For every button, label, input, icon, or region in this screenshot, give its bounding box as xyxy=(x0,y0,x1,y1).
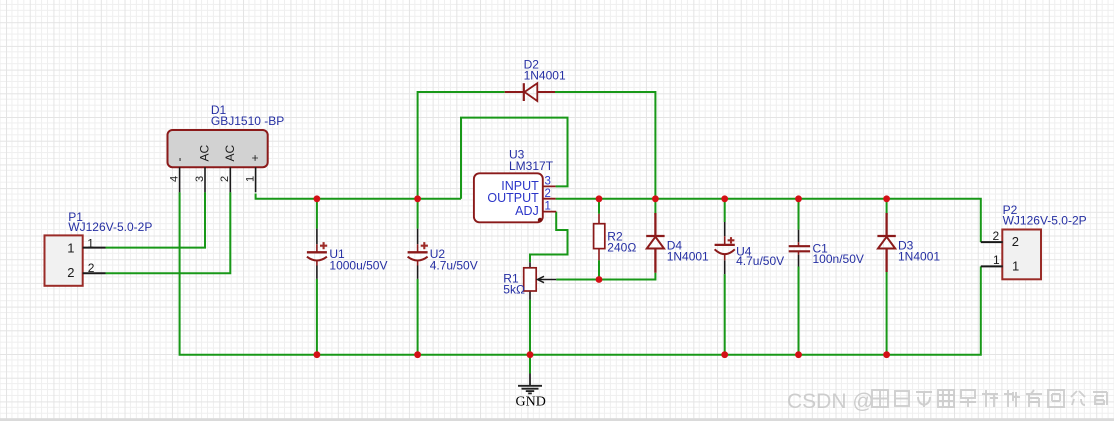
svg-text:3: 3 xyxy=(545,176,551,188)
node: U1 bottom xyxy=(314,351,321,358)
wire: bottom ground rail xyxy=(180,192,981,354)
svg-text:1: 1 xyxy=(993,253,1000,267)
potentiometer R1 xyxy=(503,262,556,299)
svg-text:1: 1 xyxy=(545,201,551,213)
connector P2 xyxy=(981,203,1087,279)
node: D3 top xyxy=(883,195,890,202)
node: U2/D2 top xyxy=(414,195,421,202)
svg-text:WJ126V-5.0-2P: WJ126V-5.0-2P xyxy=(1003,213,1087,227)
svg-text:4.7u/50V: 4.7u/50V xyxy=(736,254,784,268)
node: GND/R1 bottom xyxy=(527,351,534,358)
svg-text:1: 1 xyxy=(1012,258,1019,273)
svg-text:WJ126V-5.0-2P: WJ126V-5.0-2P xyxy=(68,220,152,234)
svg-text:2: 2 xyxy=(545,188,551,200)
svg-text:GND: GND xyxy=(516,394,546,409)
wire: left positive rail from D1 pin1 to jog xyxy=(256,194,461,199)
ground xyxy=(516,374,546,410)
wire: D4 column top xyxy=(654,199,656,215)
svg-text:2: 2 xyxy=(67,265,74,280)
svg-text:AC: AC xyxy=(198,144,212,161)
capacitor U4 xyxy=(715,222,785,274)
wire: D2 branch right side down to rail xyxy=(555,92,655,199)
svg-text:-: - xyxy=(172,158,186,162)
diode D3 xyxy=(877,213,940,272)
junction dots xyxy=(314,195,890,358)
node: D3 bottom xyxy=(883,351,890,358)
capacitor C1 xyxy=(789,230,864,267)
wire: R1 wiper line to D4 bottom xyxy=(556,273,655,280)
diode D2 xyxy=(505,57,566,101)
svg-text:1: 1 xyxy=(87,236,94,250)
svg-text:1: 1 xyxy=(67,241,74,256)
wire: jog up-over to U3 INPUT pin xyxy=(461,118,568,199)
wire: D2 branch left vertical and leads xyxy=(418,92,505,199)
wire: C1 column xyxy=(798,199,800,355)
svg-text:4.7u/50V: 4.7u/50V xyxy=(430,259,478,273)
svg-text:2: 2 xyxy=(1012,234,1019,249)
svg-text:100n/50V: 100n/50V xyxy=(813,252,864,266)
wire: ADJ zigzag to R1 xyxy=(530,212,568,263)
wire: P1 pin2 to D1 pin2 xyxy=(106,192,231,273)
svg-text:1N4001: 1N4001 xyxy=(524,69,566,83)
svg-text:5kΩ: 5kΩ xyxy=(503,283,525,297)
svg-text:GBJ1510 -BP: GBJ1510 -BP xyxy=(211,114,284,128)
capacitor U2 xyxy=(408,229,478,279)
wire: P1 pin1 to D1 pin3 xyxy=(106,192,206,247)
wire: GND stub xyxy=(529,355,531,374)
svg-text:1000u/50V: 1000u/50V xyxy=(329,259,387,273)
wire: R2 column xyxy=(598,199,600,280)
svg-text:AC: AC xyxy=(223,144,237,161)
node: R2 top xyxy=(596,195,603,202)
svg-text:1N4001: 1N4001 xyxy=(667,249,709,263)
node: C1 bottom xyxy=(795,351,802,358)
svg-text:OUTPUT: OUTPUT xyxy=(487,191,539,205)
connector P1 xyxy=(45,210,153,286)
svg-text:1: 1 xyxy=(244,176,256,182)
svg-text:4: 4 xyxy=(168,176,180,182)
svg-text:2: 2 xyxy=(219,176,231,182)
svg-text:1N4001: 1N4001 xyxy=(898,249,940,263)
node: U4 bottom xyxy=(721,351,728,358)
bottom edge line xyxy=(0,418,1114,421)
node: U4 top xyxy=(721,195,728,202)
svg-text:3: 3 xyxy=(194,176,206,182)
wire: U2 column xyxy=(417,199,419,355)
node: R1 wiper / R2 bottom xyxy=(596,276,603,283)
svg-text:240Ω: 240Ω xyxy=(607,240,636,254)
node: U1 top xyxy=(314,195,321,202)
node: U2 bottom xyxy=(414,351,421,358)
svg-text:LM317T: LM317T xyxy=(509,159,554,173)
svg-text:ADJ: ADJ xyxy=(515,204,539,218)
capacitor U1 xyxy=(307,229,388,279)
node: D4 top xyxy=(652,195,659,202)
svg-text:2: 2 xyxy=(88,261,95,275)
wire: R1 bottom to ground rail xyxy=(529,300,531,355)
wire: U1 column xyxy=(316,199,318,355)
watermark xyxy=(787,390,1107,413)
node: C1 top xyxy=(795,195,802,202)
svg-text:2: 2 xyxy=(993,229,1000,243)
regulator U3 xyxy=(474,147,556,222)
svg-text:+: + xyxy=(248,154,262,161)
resistor R2 xyxy=(594,214,637,261)
svg-text:CSDN @: CSDN @ xyxy=(787,390,874,413)
bridge rectifier D1 xyxy=(168,103,285,192)
diode D4 xyxy=(646,213,709,273)
wire: U4 column xyxy=(724,199,726,355)
wire: D3 column xyxy=(886,199,888,355)
wire: output rail from U3 OUTPUT to P2 xyxy=(556,199,981,242)
